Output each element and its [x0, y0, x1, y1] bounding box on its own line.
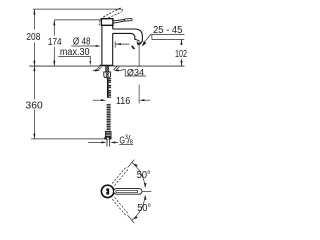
cartridge cap — [101, 19, 113, 26]
dimension 208 vertical line — [33, 9, 35, 139]
max.30 underline and leader — [58, 56, 90, 61]
svg-text:8: 8 — [130, 138, 134, 145]
25-45 aux tick and line at spout — [115, 41, 129, 47]
Ø34 right arrow — [113, 69, 118, 71]
25-45 leader line — [144, 35, 151, 43]
dimension 174 vertical line — [53, 20, 55, 66]
116 dimension line left — [93, 99, 102, 101]
208 bottom arrow — [33, 61, 35, 66]
svg-text:360: 360 — [26, 100, 44, 111]
dashed pivot arc in cap — [99, 17, 103, 25]
flexible hose lower part — [107, 104, 111, 130]
pivot slot — [106, 188, 109, 194]
Ø48 leader arrow — [96, 45, 101, 47]
174 bottom arrow — [53, 61, 55, 66]
dashed raised lever lines — [103, 9, 121, 20]
deck hatching — [96, 67, 119, 70]
solid lever paddle — [125, 18, 131, 21]
116 right arrow — [139, 99, 144, 101]
pivot circle — [101, 185, 113, 197]
spout outlet nozzle — [135, 39, 143, 45]
mounting nut horseshoe — [104, 72, 111, 78]
upper 50 arc — [132, 162, 145, 187]
116 right extension line (from spout tip down) — [138, 41, 140, 103]
G3/8 left arrow — [101, 141, 106, 143]
116 left arrow — [101, 99, 106, 101]
arc arrowheads — [133, 164, 146, 220]
360 bottom arrow — [33, 134, 35, 139]
aux diagonal stroke near spout tip — [131, 45, 135, 49]
360 top arrow — [33, 66, 35, 71]
dimension 102 vertical line — [181, 40, 183, 66]
max.30 leader arrow — [90, 61, 92, 66]
svg-text:3: 3 — [125, 134, 129, 141]
svg-text:208: 208 — [26, 32, 40, 43]
lower 50 arc — [132, 195, 145, 220]
lever handle outline — [114, 189, 142, 195]
102 bottom arrow — [180, 61, 182, 66]
svg-text:102: 102 — [175, 49, 187, 60]
svg-text:Ø34: Ø34 — [127, 67, 144, 77]
dashed raised lever tip — [119, 8, 122, 12]
connection tube G3/8 — [107, 139, 110, 146]
svg-text:Ø 48: Ø 48 — [73, 36, 91, 47]
fitting flange — [104, 137, 111, 139]
aux left arrow at tick — [116, 43, 121, 45]
102 upper extension line — [152, 35, 184, 40]
lever centerline — [142, 190, 151, 192]
Ø48 underline — [71, 45, 96, 47]
G3/8 underline — [119, 143, 133, 145]
label G 3/8 — [119, 134, 133, 146]
116 dimension line right — [144, 99, 151, 101]
svg-text:116: 116 — [116, 96, 131, 107]
208 extension line top — [33, 8, 122, 10]
flexible hose upper part — [107, 78, 111, 98]
25-45 underline — [151, 34, 185, 36]
faucet body sides — [102, 25, 113, 65]
174 top arrow — [53, 20, 55, 25]
174 extension line — [54, 19, 101, 21]
dashed lever position upper — [112, 167, 128, 186]
lower extension line — [128, 215, 135, 223]
spout bottom edge — [113, 33, 135, 40]
solid lever neck — [113, 20, 125, 24]
svg-text:max.30: max.30 — [60, 47, 90, 58]
102 top arrow — [180, 40, 182, 45]
base flange — [99, 65, 113, 67]
G3/8 right arrow — [110, 141, 115, 143]
208 top arrow — [33, 9, 35, 14]
spout top edge — [113, 29, 143, 41]
dashed lever position lower — [112, 197, 128, 216]
threaded shank below deck — [106, 66, 109, 72]
Ø34 left arrow — [95, 69, 100, 71]
arrowheads — [33, 9, 182, 143]
svg-text:25 - 45: 25 - 45 — [153, 25, 183, 36]
360 extension line bottom — [31, 138, 104, 140]
Ø34 dimension lines — [93, 69, 146, 76]
25-45 leader arrow at spout — [142, 41, 147, 46]
hose end fitting nut — [105, 131, 111, 137]
deck line — [29, 65, 184, 67]
G3/8 dimension lines — [88, 141, 118, 143]
lever slot — [116, 190, 138, 192]
upper extension line — [128, 160, 135, 168]
